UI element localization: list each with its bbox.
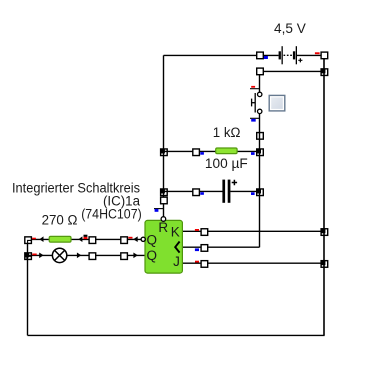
svg-text:Q: Q bbox=[147, 248, 158, 263]
svg-text:R: R bbox=[158, 220, 168, 235]
svg-text:100 µF: 100 µF bbox=[205, 156, 248, 171]
svg-text:(74HC107): (74HC107) bbox=[81, 206, 142, 221]
svg-text:270 Ω: 270 Ω bbox=[42, 213, 78, 228]
svg-text:K: K bbox=[171, 224, 180, 239]
svg-text:4,5 V: 4,5 V bbox=[274, 21, 306, 36]
svg-text:1 kΩ: 1 kΩ bbox=[213, 125, 241, 140]
svg-text:J: J bbox=[173, 254, 180, 269]
svg-text:Q: Q bbox=[147, 233, 158, 248]
